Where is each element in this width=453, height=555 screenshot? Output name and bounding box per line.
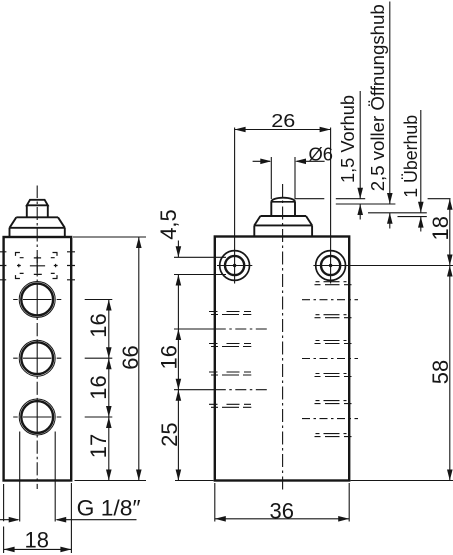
right view vertical centerline	[282, 184, 284, 490]
svg-text:16: 16	[86, 375, 111, 399]
dimension 66 line	[138, 237, 140, 481]
svg-text:18: 18	[25, 527, 49, 552]
right view side port 2 centerline	[302, 358, 358, 360]
dimension 36 line	[215, 518, 349, 520]
left view port circle 2	[13, 340, 61, 376]
right view right screw hole	[313, 128, 453, 284]
svg-text:G 1/8″: G 1/8″	[77, 495, 141, 520]
dimension 18 right line	[449, 199, 451, 266]
svg-text:17: 17	[86, 434, 111, 458]
right view body outline	[215, 237, 349, 481]
left view body outline	[4, 237, 72, 481]
dimension 1,5 Vorhub	[359, 91, 361, 220]
stroke level line L2	[336, 203, 396, 205]
dimension 18 extension lines	[4, 483, 72, 553]
dimension 66 extension lines	[73, 237, 146, 481]
svg-text:2,5 voller Öffnungshub: 2,5 voller Öffnungshub	[367, 4, 388, 191]
svg-text:4,5: 4,5	[156, 209, 181, 240]
right view plunger dome	[271, 198, 295, 202]
dimension 18 line	[4, 548, 72, 550]
svg-text:36: 36	[269, 499, 293, 524]
right view plunger collar	[254, 216, 312, 237]
svg-text:1 Überhub: 1 Überhub	[400, 115, 421, 198]
stroke level line L1	[295, 198, 451, 200]
svg-text:18: 18	[428, 216, 453, 240]
left view vertical centerline	[36, 186, 38, 490]
right view left port B thread hidden lines	[209, 372, 251, 407]
right view left port A thread hidden lines	[209, 312, 251, 347]
right view side port 3 centerline	[302, 418, 358, 420]
dimension 58 extension line bottom	[351, 480, 453, 482]
extension line bottom between views	[175, 480, 214, 482]
svg-text:25: 25	[157, 422, 182, 446]
right view side port 1 centerline	[302, 299, 358, 301]
right view left port B centerline	[215, 389, 268, 391]
right view side port 3 thread hidden lines	[315, 401, 352, 437]
right view side port 2 thread hidden lines	[315, 341, 352, 377]
dimension diameter 6 line	[253, 160, 325, 162]
dimension 26 line	[235, 129, 331, 131]
dimension G 1/8 leader	[0, 519, 137, 521]
left view plunger collar	[10, 217, 65, 237]
left view plunger cylinder	[27, 205, 48, 217]
left view port circle 3	[13, 399, 61, 435]
dimension 1 Ueberhub	[420, 110, 422, 232]
dimension 16/16/17 extension lines	[85, 300, 113, 418]
left view port circle 1	[13, 282, 61, 318]
stroke level line L3	[368, 212, 427, 214]
svg-text:16: 16	[156, 345, 181, 369]
svg-text:66: 66	[118, 345, 143, 369]
stroke level line L4	[398, 216, 427, 218]
dimension 4,5 line with chain to 16/25	[177, 241, 179, 481]
svg-text:26: 26	[271, 110, 295, 131]
right view plunger cylinder	[271, 202, 295, 216]
dimension 16/16/17 line	[108, 300, 110, 481]
dimension diameter 6 extension lines	[271, 157, 295, 199]
dimension 36 extension lines	[215, 483, 349, 522]
dimension 16 left of front view extension lines	[174, 329, 215, 390]
right view left port A centerline	[215, 328, 268, 330]
svg-text:58: 58	[428, 360, 453, 384]
svg-text:Ø6: Ø6	[309, 144, 334, 165]
left view hidden pocket pattern	[0, 252, 75, 280]
dimension 58 line	[449, 266, 451, 481]
left view plunger cap	[27, 200, 48, 206]
right view left screw hole	[217, 128, 252, 284]
dimension 2,5 voller Oeffnungshub	[389, 2, 391, 229]
dimension 4,5 extension lines	[174, 257, 226, 274]
svg-text:1,5 Vorhub: 1,5 Vorhub	[337, 95, 358, 183]
left view bottom port bore walls	[20, 432, 56, 522]
svg-text:16: 16	[86, 313, 111, 337]
right view side port 1 thread hidden lines	[315, 282, 352, 318]
